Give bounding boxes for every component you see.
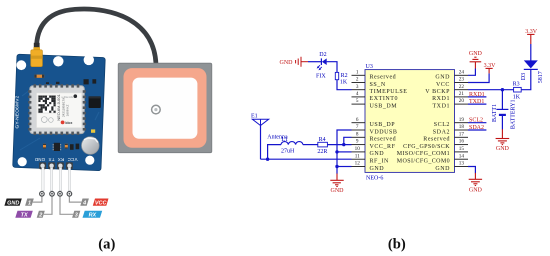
SMA connector ferrule xyxy=(34,43,40,52)
header pins xyxy=(42,168,71,191)
svg-text:MISO/CFG_COM1: MISO/CFG_COM1 xyxy=(397,151,450,157)
node junction pin12 xyxy=(335,165,338,168)
yellow SMD xyxy=(91,129,95,132)
resistor R3 1K xyxy=(514,87,522,92)
svg-text:CFG_GPS0/SCK: CFG_GPS0/SCK xyxy=(403,144,450,150)
svg-text:RX: RX xyxy=(89,213,97,219)
power port 3.3V at D3 xyxy=(530,34,532,44)
faint PCB trace marks xyxy=(20,90,99,150)
svg-text:6: 6 xyxy=(356,117,359,123)
wire junction down to battery xyxy=(501,90,503,110)
pin 17 Reserved xyxy=(455,136,469,138)
pin 22 V_BCKP xyxy=(455,89,469,91)
svg-text:USB_DM: USB_DM xyxy=(370,103,398,109)
svg-text:TXD1: TXD1 xyxy=(432,103,450,109)
pin 1 Reserved xyxy=(352,74,366,76)
resistor R4 22R xyxy=(318,142,328,147)
pin ring 2 xyxy=(50,192,55,197)
svg-text:22: 22 xyxy=(459,84,465,90)
svg-text:R2: R2 xyxy=(341,73,348,79)
wire pin 18 net SDA2 xyxy=(468,129,486,131)
pin 14 MOSI/CFG_COM0 xyxy=(455,158,469,160)
NEO-6M metal shield xyxy=(30,86,85,134)
svg-text:22R: 22R xyxy=(317,149,327,155)
pin 10 GND xyxy=(352,151,366,153)
svg-text:TX: TX xyxy=(21,213,28,219)
resistor R2 1K xyxy=(335,72,338,79)
wire RF_IN (pin 11) xyxy=(261,158,352,160)
svg-text:RXD1: RXD1 xyxy=(432,96,450,102)
pin 12 GND xyxy=(352,166,366,168)
svg-text:17: 17 xyxy=(459,131,465,137)
svg-text:VDDUSB: VDDUSB xyxy=(370,129,398,135)
wire D3 to 3.3V xyxy=(530,44,532,61)
svg-text:19: 19 xyxy=(459,117,465,123)
svg-text:VCC: VCC xyxy=(95,200,108,206)
RX flag xyxy=(83,211,103,218)
pin 21 RXD1 xyxy=(455,96,469,98)
svg-text:VCC_RF: VCC_RF xyxy=(370,144,396,150)
pin number 4 xyxy=(80,199,89,206)
pin 11 RF_IN xyxy=(352,158,366,160)
LED D3 5817 xyxy=(524,68,538,70)
svg-text:VCC: VCC xyxy=(436,82,450,88)
svg-text:27uH: 27uH xyxy=(281,149,295,155)
svg-text:SCL2: SCL2 xyxy=(469,118,483,124)
svg-text:GND: GND xyxy=(331,188,345,194)
svg-text:L1: L1 xyxy=(281,137,288,143)
pin pads on board xyxy=(39,162,73,169)
svg-text:Reserved: Reserved xyxy=(370,75,397,81)
svg-text:1K: 1K xyxy=(340,80,348,86)
node junction pin10 xyxy=(335,150,338,153)
wire pin 20 net TXD1 xyxy=(468,103,486,105)
pin 5 USB_DM xyxy=(352,103,366,105)
mounting hole bottom-left xyxy=(18,157,27,166)
svg-text:BATT1: BATT1 xyxy=(492,104,498,122)
node junction battery xyxy=(501,88,504,91)
wire pin 22 to R3 xyxy=(468,89,514,91)
antenna ground plate xyxy=(118,63,212,153)
ceramic patch xyxy=(124,68,207,148)
svg-text:RXD1: RXD1 xyxy=(469,92,485,98)
u-blox logo on sticker xyxy=(61,121,65,125)
svg-text:7: 7 xyxy=(356,124,359,130)
svg-text:5817: 5817 xyxy=(538,71,544,83)
antenna cable xyxy=(37,9,156,64)
svg-text:10: 10 xyxy=(355,146,361,152)
svg-text:R3: R3 xyxy=(513,82,520,88)
wire pin 13 to ground xyxy=(468,167,475,174)
svg-text:3.3V: 3.3V xyxy=(525,29,538,35)
svg-text:1608 KZ: 1608 KZ xyxy=(66,105,70,117)
svg-text:3: 3 xyxy=(356,84,359,90)
svg-text:GND: GND xyxy=(435,75,450,81)
svg-text:GND: GND xyxy=(280,60,294,66)
svg-text:8: 8 xyxy=(356,131,359,137)
svg-text:GND: GND xyxy=(469,187,483,193)
svg-text:TIMEPULSE: TIMEPULSE xyxy=(370,89,408,95)
SMA connector body xyxy=(33,47,40,51)
svg-text:SCL2: SCL2 xyxy=(434,122,450,128)
pin 4 EXTINT0 xyxy=(352,96,366,98)
svg-text:NEO-6M-0-001: NEO-6M-0-001 xyxy=(56,94,61,120)
pin 13 GND xyxy=(455,166,469,168)
pin number 3 xyxy=(72,211,80,218)
svg-text:U3: U3 xyxy=(366,64,373,70)
svg-text:14: 14 xyxy=(459,153,465,159)
wire R2 to pin 3 xyxy=(337,80,352,90)
feed point xyxy=(152,105,161,114)
svg-text:16: 16 xyxy=(459,139,465,145)
SMD row above pin pads xyxy=(43,144,46,149)
pin 2 SS_N xyxy=(352,82,366,84)
TX flag xyxy=(15,211,33,218)
pin 6 USB_DP xyxy=(352,122,366,124)
pin number 1 xyxy=(25,199,34,206)
wire R4 to pin 9 xyxy=(327,144,351,146)
pin 18 SDA2 xyxy=(455,129,469,131)
svg-text:blox: blox xyxy=(65,121,72,125)
op IC U3 NEO-6 body xyxy=(365,70,455,173)
svg-text:NEO-6: NEO-6 xyxy=(366,176,383,182)
pin 8 Reserved xyxy=(352,136,366,138)
svg-text:23: 23 xyxy=(459,77,465,83)
svg-text:FIX: FIX xyxy=(316,74,326,80)
svg-text:GND: GND xyxy=(7,200,19,206)
wire pin 10 to ground rail xyxy=(337,151,352,153)
small SMD bits xyxy=(46,82,49,84)
svg-text:3: 3 xyxy=(75,213,78,219)
lead wire pin3 xyxy=(60,196,73,214)
svg-text:D2: D2 xyxy=(319,52,326,58)
svg-text:1: 1 xyxy=(28,200,31,206)
svg-text:GND: GND xyxy=(435,166,450,172)
svg-text:RF_IN: RF_IN xyxy=(370,159,390,165)
wire battery to ground xyxy=(501,115,503,130)
lead wire pin1 xyxy=(33,196,42,202)
sticker stamp circles xyxy=(41,117,47,123)
mounting hole top-left xyxy=(16,60,26,70)
svg-text:20: 20 xyxy=(459,98,465,104)
svg-text:13: 13 xyxy=(459,161,465,167)
mounting hole top-middle xyxy=(53,56,63,66)
svg-text:SDA2: SDA2 xyxy=(469,125,484,131)
wire pin 24 to ground top xyxy=(468,69,475,76)
ground symbol below rail xyxy=(336,174,338,181)
svg-text:GY-NEO6MV2: GY-NEO6MV2 xyxy=(15,95,21,128)
pin 20 TXD1 xyxy=(455,103,469,105)
ground symbol bottom right xyxy=(474,173,476,179)
svg-text:EXTINT0: EXTINT0 xyxy=(370,96,399,102)
lead wire pin2 xyxy=(44,196,52,214)
pin ring 4 xyxy=(67,192,72,197)
GND flag xyxy=(4,199,21,206)
svg-text:SS_N: SS_N xyxy=(370,82,386,88)
svg-text:TXD1: TXD1 xyxy=(469,99,484,105)
wire pin 19 net SCL2 xyxy=(468,122,486,124)
svg-text:GND: GND xyxy=(469,51,483,57)
lead wire pin4 xyxy=(69,196,81,202)
svg-text:24: 24 xyxy=(459,69,465,75)
shield sticker label xyxy=(37,93,82,128)
pin ring 3 xyxy=(58,192,63,197)
wire pin 23 to 3.3V xyxy=(468,73,489,82)
svg-text:5: 5 xyxy=(356,98,359,104)
EEPROM chip xyxy=(89,96,101,108)
wire R3 to D3 xyxy=(521,69,531,89)
ground symbol below battery xyxy=(501,129,503,138)
SMD ICs right top xyxy=(84,79,89,84)
VCC flag xyxy=(93,199,109,206)
mounting hole top-right xyxy=(84,55,94,65)
pin 23 VCC xyxy=(455,82,469,84)
pin 9 VCC_RF xyxy=(352,144,366,146)
wire pin 12 to ground rail xyxy=(337,166,352,168)
node junction pin8/pin9 xyxy=(342,143,345,146)
svg-text:u-blox AG: u-blox AG xyxy=(62,95,73,99)
wire GND to D2 xyxy=(308,61,321,63)
mounting hole bottom-right xyxy=(85,156,94,165)
svg-text:21: 21 xyxy=(459,91,465,97)
ground symbol top right xyxy=(474,62,476,69)
svg-text:2: 2 xyxy=(38,213,42,219)
pin 19 SCL2 xyxy=(455,122,469,124)
node junction antenna/L1 xyxy=(266,158,269,161)
svg-text:4: 4 xyxy=(82,200,86,206)
pin 3 TIMEPULSE xyxy=(352,89,366,91)
shield castellation pads xyxy=(28,84,86,135)
svg-text:Reserved: Reserved xyxy=(370,137,397,143)
svg-text:GND: GND xyxy=(370,166,385,172)
svg-text:SDA2: SDA2 xyxy=(433,129,450,135)
svg-text:D3: D3 xyxy=(521,73,527,80)
GPS PCB board xyxy=(13,54,106,171)
svg-text:MOSI/CFG_COM0: MOSI/CFG_COM0 xyxy=(397,159,450,165)
wire pin 8 drop to VCC_RF line xyxy=(344,137,352,144)
sticker QR code xyxy=(38,95,56,113)
svg-text:3.3V: 3.3V xyxy=(484,63,497,69)
svg-text:USB_DP: USB_DP xyxy=(370,122,396,128)
svg-text:11: 11 xyxy=(355,153,360,159)
svg-text:R4: R4 xyxy=(319,137,326,143)
svg-text:(b): (b) xyxy=(388,236,406,252)
svg-text:GND: GND xyxy=(496,146,510,152)
svg-text:(a): (a) xyxy=(98,236,115,252)
svg-text:2: 2 xyxy=(356,77,359,83)
pin 7 VDDUSB xyxy=(352,129,366,131)
wire pin 7 down to ground rail xyxy=(337,130,352,174)
svg-text:Reserved: Reserved xyxy=(423,137,450,143)
svg-text:GND: GND xyxy=(370,151,385,157)
pin 15 MISO/CFG_COM1 xyxy=(455,151,469,153)
svg-text:15: 15 xyxy=(459,146,465,152)
SMD resistor top-left xyxy=(34,75,44,78)
svg-text:12: 12 xyxy=(355,161,361,167)
backup battery xyxy=(82,137,100,155)
pin number 2 xyxy=(37,211,45,218)
pin 24 GND xyxy=(455,74,469,76)
inductor L1 27uH xyxy=(281,142,303,145)
battery BATT1 BATTERY1 xyxy=(496,108,508,110)
svg-text:4: 4 xyxy=(356,91,359,97)
wire L1 to R4 xyxy=(303,144,318,146)
power port 3.3V at VCC xyxy=(488,68,490,73)
pin ring 1 xyxy=(40,192,45,197)
svg-text:V BCKP: V BCKP xyxy=(425,89,450,95)
pin 16 CFG_GPS0/SCK xyxy=(455,144,469,146)
svg-text:9: 9 xyxy=(356,139,359,145)
svg-text:BATTERY1: BATTERY1 xyxy=(511,99,517,129)
svg-text:18: 18 xyxy=(459,124,465,130)
svg-text:1: 1 xyxy=(356,69,359,75)
svg-text:VCC RX TX GND: VCC RX TX GND xyxy=(34,157,77,162)
wire pin 21 net RXD1 xyxy=(468,96,486,98)
wire junction up to L1 xyxy=(268,145,281,160)
patch top metal xyxy=(133,78,198,139)
wire D2 to R2 xyxy=(327,62,337,73)
wire antenna down to RF line xyxy=(260,126,262,160)
LED D2 FIX xyxy=(320,58,322,65)
